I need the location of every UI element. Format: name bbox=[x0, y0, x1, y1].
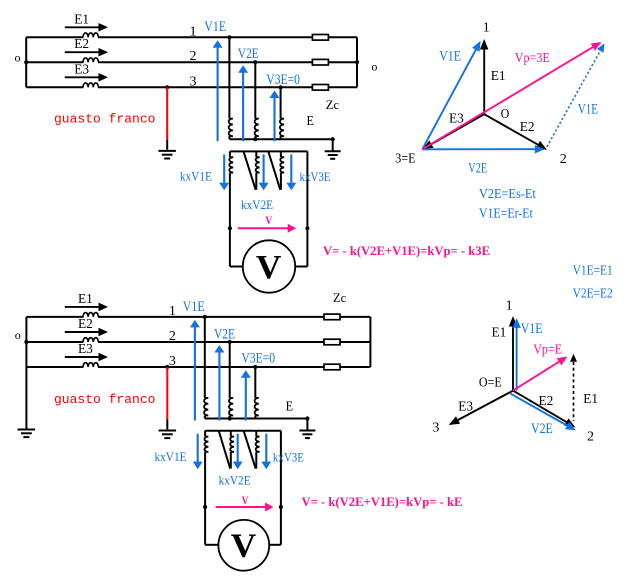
svg-text:Vp=3E: Vp=3E bbox=[515, 51, 550, 66]
svg-text:V1E: V1E bbox=[521, 321, 543, 337]
svg-text:1: 1 bbox=[169, 304, 176, 319]
svg-text:3: 3 bbox=[169, 354, 176, 369]
svg-text:1: 1 bbox=[483, 21, 490, 36]
svg-text:V1E=E1: V1E=E1 bbox=[573, 263, 613, 278]
svg-text:E2: E2 bbox=[539, 394, 554, 409]
svg-text:E2: E2 bbox=[520, 120, 535, 135]
svg-text:V3E=0: V3E=0 bbox=[266, 72, 300, 88]
svg-text:V= - k(V2E+V1E)=kVp= - kE: V= - k(V2E+V1E)=kVp= - kE bbox=[302, 494, 463, 509]
svg-text:E1: E1 bbox=[491, 69, 506, 84]
svg-text:E: E bbox=[286, 400, 293, 415]
svg-text:2: 2 bbox=[169, 329, 176, 344]
svg-text:E3: E3 bbox=[449, 111, 464, 126]
svg-text:V1E: V1E bbox=[439, 49, 461, 65]
svg-text:1: 1 bbox=[190, 24, 197, 39]
svg-text:V2E: V2E bbox=[468, 161, 487, 177]
svg-text:E2: E2 bbox=[78, 317, 93, 332]
svg-text:V3E=0: V3E=0 bbox=[241, 350, 275, 366]
svg-text:3: 3 bbox=[190, 74, 197, 89]
svg-text:kxV1E: kxV1E bbox=[155, 450, 187, 464]
svg-text:E3: E3 bbox=[78, 342, 93, 357]
svg-text:V: V bbox=[265, 215, 273, 227]
svg-text:2: 2 bbox=[587, 430, 594, 445]
svg-text:V1E: V1E bbox=[183, 299, 205, 315]
svg-text:O=E: O=E bbox=[479, 376, 502, 391]
svg-text:o: o bbox=[15, 51, 21, 65]
svg-text:V2E=E2: V2E=E2 bbox=[573, 286, 613, 301]
svg-text:kxV2E: kxV2E bbox=[241, 198, 273, 212]
svg-text:V2E: V2E bbox=[214, 327, 235, 343]
svg-text:E1: E1 bbox=[492, 326, 507, 341]
svg-text:V2E=Es-Et: V2E=Es-Et bbox=[479, 187, 536, 202]
svg-text:V1E: V1E bbox=[204, 19, 226, 35]
svg-text:2: 2 bbox=[190, 49, 197, 64]
svg-text:V1E: V1E bbox=[578, 101, 598, 117]
svg-text:E3: E3 bbox=[458, 400, 473, 415]
svg-text:V: V bbox=[231, 528, 257, 565]
svg-text:Zc: Zc bbox=[326, 98, 340, 112]
svg-text:O: O bbox=[501, 107, 510, 122]
svg-text:o: o bbox=[15, 328, 21, 342]
svg-text:E2: E2 bbox=[74, 37, 89, 52]
svg-text:kxV3E: kxV3E bbox=[273, 450, 304, 464]
svg-text:Zc: Zc bbox=[333, 291, 347, 305]
svg-text:1: 1 bbox=[506, 298, 513, 313]
svg-text:E1: E1 bbox=[583, 392, 598, 407]
svg-text:V: V bbox=[256, 249, 282, 286]
svg-text:3: 3 bbox=[432, 420, 439, 435]
svg-text:E1: E1 bbox=[74, 12, 89, 27]
svg-text:E: E bbox=[307, 114, 314, 129]
svg-text:kxV3E: kxV3E bbox=[300, 170, 331, 184]
svg-text:E3: E3 bbox=[74, 62, 89, 77]
svg-text:V= - k(V2E+V1E)=kVp= - k3E: V= - k(V2E+V1E)=kVp= - k3E bbox=[323, 243, 490, 258]
svg-text:V2E: V2E bbox=[531, 421, 553, 437]
svg-text:V: V bbox=[242, 495, 250, 507]
svg-text:kxV2E: kxV2E bbox=[219, 473, 251, 487]
svg-text:3=E: 3=E bbox=[395, 152, 415, 167]
svg-text:kxV1E: kxV1E bbox=[180, 170, 212, 184]
svg-text:V1E=Er-Et: V1E=Er-Et bbox=[479, 206, 533, 221]
svg-text:V2E: V2E bbox=[238, 46, 259, 62]
svg-text:guasto franco: guasto franco bbox=[54, 112, 155, 127]
svg-text:2: 2 bbox=[560, 152, 567, 167]
svg-text:E1: E1 bbox=[78, 292, 93, 307]
svg-text:guasto franco: guasto franco bbox=[54, 392, 155, 407]
svg-text:Vp=E: Vp=E bbox=[533, 343, 562, 358]
svg-text:o: o bbox=[371, 59, 377, 73]
